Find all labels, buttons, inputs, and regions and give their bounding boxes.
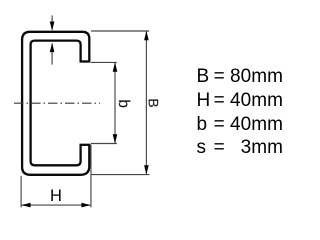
H dimension line	[21, 204, 90, 206]
s dimension arrow lower (points up)	[50, 43, 55, 52]
B bottom extension line	[91, 174, 150, 176]
legend line 4: s = 3mm	[0, 138, 294, 158]
B dimension line	[145, 31, 147, 174]
b dimension line	[114, 63, 116, 144]
legend line 1: B = 80mm	[0, 67, 294, 87]
profile outer contour	[22, 32, 89, 175]
centerline dash-dot	[14, 102, 100, 104]
label H on H dimension line	[50, 188, 62, 205]
s dimension line upper segment	[51, 15, 53, 29]
B top extension line	[91, 30, 149, 32]
b top extension line	[91, 61, 117, 63]
s dimension arrow upper (points down)	[50, 22, 55, 31]
H left extension line	[20, 176, 22, 207]
B arrow bottom (points down)	[144, 165, 149, 174]
profile inner contour	[31, 41, 81, 166]
label B rotated on B dimension line	[147, 98, 161, 107]
b bottom extension line	[91, 143, 117, 145]
b arrow top (points up)	[113, 63, 118, 72]
top lip end cap	[80, 60, 91, 62]
legend line 3: b = 40mm	[0, 115, 294, 135]
H arrow right (points right)	[81, 203, 90, 208]
b arrow bottom (points down)	[113, 134, 118, 143]
bottom lip end cap	[80, 144, 91, 146]
label b rotated on b dimension line	[115, 100, 130, 109]
H arrow left (points left)	[21, 203, 30, 208]
B arrow top (points up)	[144, 31, 149, 40]
legend line 2: H = 40mm	[0, 91, 294, 111]
H right extension line	[90, 145, 92, 208]
s dimension line lower segment	[51, 44, 53, 65]
